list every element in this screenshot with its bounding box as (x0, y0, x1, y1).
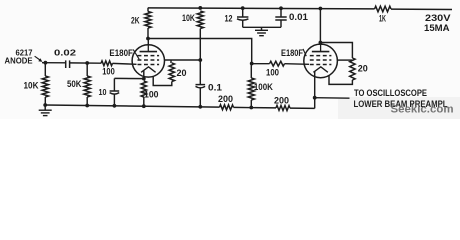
wire rail to 230V terminal (391, 8, 452, 10)
svg-text:E180F: E180F (281, 48, 303, 58)
wire anode junction to tube1 plate (147, 39, 149, 46)
svg-text:200: 200 (218, 93, 233, 104)
capacitor 0.02 (coupling) (65, 60, 67, 68)
ground (main, left) (44, 105, 46, 110)
wire output (315, 97, 350, 100)
watermark Seekic.com (338, 97, 460, 119)
top supply rail 230V (148, 7, 375, 10)
svg-text:E180F: E180F (109, 48, 133, 58)
capacitor 0.01 (supply decoupling) (279, 6, 283, 10)
wire cap to grid resistor (70, 62, 101, 64)
svg-text:10K: 10K (24, 80, 39, 91)
resistor 100 (grid stopper tube1) (101, 61, 113, 66)
resistor 2K (tube1 anode load) (145, 12, 151, 29)
bottom common rail (45, 105, 219, 107)
rail junction dots (43, 103, 47, 107)
resistor 10K (tube1 screen dropper) (197, 11, 203, 29)
capacitor 0.1 (screen bypass) (199, 60, 201, 85)
node: tube1 anode junction (146, 37, 150, 41)
svg-text:100K: 100K (254, 81, 273, 92)
node tube1 screen (198, 58, 202, 62)
svg-text:20: 20 (358, 64, 368, 75)
svg-text:100: 100 (266, 68, 279, 78)
resistor 50K (grid leak tube1) (86, 63, 88, 76)
wire tube2 anode to supply rail (319, 9, 321, 45)
svg-text:10K: 10K (182, 12, 195, 23)
node output (313, 96, 317, 100)
resistor 1K (supply dropper, in rail) (375, 6, 392, 12)
node tube2 anode branch (319, 41, 323, 45)
svg-text:100: 100 (102, 66, 115, 77)
node input / 10K load (44, 61, 48, 65)
wire anode line to stage 2 grid (148, 39, 252, 64)
wire tube1 screen to node (164, 59, 200, 61)
resistor 200 (feedback, right) (276, 105, 290, 110)
input arrow from 6217 anode (35, 56, 40, 60)
svg-text:2K: 2K (131, 15, 140, 26)
wire joining both caps to ground (243, 26, 281, 28)
resistor 100 (grid stopper tube2) (252, 63, 270, 65)
svg-text:TO OSCILLOSCOPE: TO OSCILLOSCOPE (354, 88, 427, 98)
wire cathode to bypass cap (114, 77, 143, 79)
leader E180F to tube2 (303, 49, 306, 56)
tube1 cathode lead (143, 70, 145, 78)
node 50K (85, 61, 89, 65)
node stage2 grid (250, 62, 254, 66)
resistor 200 (feedback, left) (220, 105, 234, 110)
svg-text:0.01: 0.01 (289, 12, 308, 22)
resistor 20 (tube1, screen-cathode) (170, 60, 172, 63)
svg-text:12: 12 (225, 14, 233, 24)
wire tube2 screen tie (337, 59, 353, 61)
svg-text:1K: 1K (379, 14, 386, 24)
svg-text:100: 100 (144, 89, 159, 100)
svg-text:50K: 50K (67, 79, 82, 89)
resistor 10K (input load) (44, 63, 46, 76)
resistor 100 (cathode tube1) (141, 81, 146, 97)
tube2 cathode lead (314, 71, 316, 98)
ground (decoupling caps) (255, 29, 268, 31)
resistor 20 (tube2, anode-cathode) (320, 43, 352, 59)
wire cathode to bottom rail (314, 98, 316, 109)
svg-text:Seekic.com: Seekic.com (391, 104, 454, 116)
svg-text:ANODE: ANODE (5, 56, 33, 66)
vacuum tube E180F V2 (304, 44, 338, 78)
svg-text:0.02: 0.02 (54, 48, 76, 58)
svg-text:0.1: 0.1 (208, 83, 222, 93)
svg-text:200: 200 (274, 95, 289, 106)
capacitor 12 (supply decoupling) (241, 6, 245, 10)
svg-text:10: 10 (99, 87, 107, 97)
svg-text:15MA: 15MA (424, 22, 450, 33)
leader E180F to tube1 (133, 50, 139, 60)
capacitor 10 (cathode bypass tube1) (113, 78, 115, 91)
resistor 100K (grid leak tube2) (250, 64, 252, 79)
wire input node (42, 62, 66, 64)
svg-text:20: 20 (177, 68, 187, 79)
vacuum tube E180F V1 (132, 45, 164, 77)
